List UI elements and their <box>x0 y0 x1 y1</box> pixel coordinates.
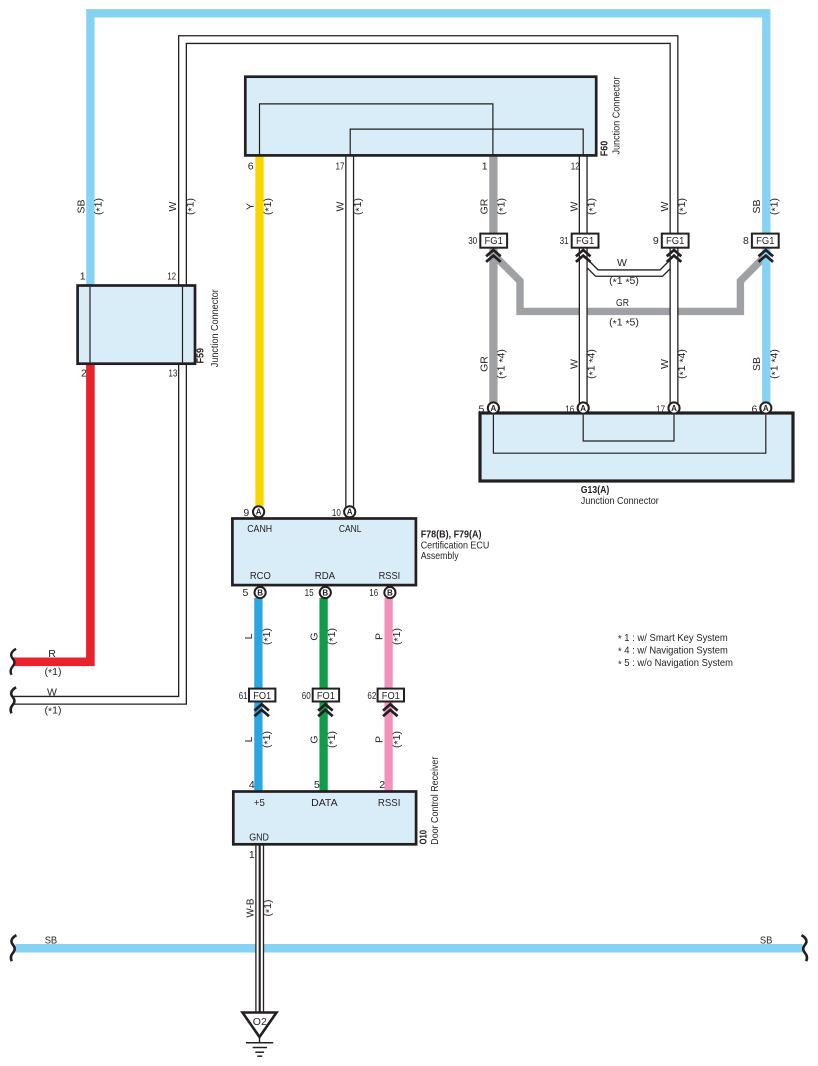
continuation brace left of R wire <box>11 649 16 675</box>
svg-text:31: 31 <box>560 235 569 247</box>
svg-text:(*1 *4): (*1 *4) <box>676 349 689 379</box>
svg-text:G: G <box>308 632 320 640</box>
F59 name label <box>196 289 221 367</box>
svg-text:5: 5 <box>314 779 320 791</box>
svg-text:FO1: FO1 <box>382 690 400 702</box>
continuation brace right of bottom SB rail <box>802 935 807 961</box>
svg-text:F60: F60 <box>600 140 611 156</box>
svg-text:* 5 : w/o Navigation System: * 5 : w/o Navigation System <box>618 657 733 670</box>
pin 10 A circle on ECU <box>344 506 355 517</box>
wire W : F60 pin 12 down to FG1 pin 31 <box>579 156 588 234</box>
svg-text:W: W <box>659 201 671 211</box>
wire SB : FG1 pin 8 down to G13(A) pin 6 <box>762 248 770 404</box>
connector FO1 pin 61 <box>249 689 275 717</box>
wire label R (*1) <box>45 648 62 679</box>
wire label W (*1) stub <box>45 687 62 718</box>
svg-text:Junction Connector: Junction Connector <box>209 289 221 367</box>
door control receiver O10 <box>233 792 416 845</box>
svg-text:(*1): (*1) <box>352 198 365 215</box>
svg-text:FO1: FO1 <box>253 690 271 702</box>
wire label SB (*1 *4) <box>751 349 782 379</box>
pin 5 A circle on G13 <box>488 402 499 413</box>
svg-text:1: 1 <box>249 849 255 861</box>
svg-text:13: 13 <box>168 368 177 380</box>
wire label W (*1 *4) to pin 16 <box>568 349 599 379</box>
junction connector F59 <box>78 286 195 364</box>
svg-text:GR: GR <box>478 356 490 372</box>
svg-text:(*1): (*1) <box>326 731 339 748</box>
svg-text:W: W <box>568 359 580 369</box>
svg-text:(*1): (*1) <box>262 198 275 215</box>
svg-text:(*1 *4): (*1 *4) <box>768 349 781 379</box>
wire W : FG1 pin 31 down to G13(A) pin 16 <box>579 248 588 404</box>
svg-text:5: 5 <box>479 404 485 416</box>
svg-text:Junction Connector: Junction Connector <box>610 76 622 154</box>
connector FG1 pin 8 <box>752 234 779 262</box>
svg-text:W: W <box>568 201 580 211</box>
svg-text:SB: SB <box>76 199 88 213</box>
svg-text:62: 62 <box>367 690 376 702</box>
wire label GR (*1 *5) <box>609 297 639 330</box>
svg-text:9: 9 <box>243 507 249 519</box>
ground hatch <box>246 1043 273 1056</box>
svg-text:(*1): (*1) <box>262 900 275 917</box>
wire label GR (*1 *4) <box>478 349 509 379</box>
svg-text:FG1: FG1 <box>756 235 774 247</box>
svg-text:GR: GR <box>616 297 629 309</box>
svg-text:B: B <box>322 588 328 597</box>
svg-text:2: 2 <box>81 368 87 380</box>
svg-text:4: 4 <box>249 779 255 791</box>
wire W (*1 *5) : FG1 pin 31 jog to FG1 pin 9 (outlined) <box>583 260 674 274</box>
wire W : F59 pin 12 up, across top, down to FG1 pin 9 (outlined white wire) <box>183 40 675 286</box>
pin 16 A circle on G13 <box>578 402 589 413</box>
wire label W (*1) F60 pin 17 <box>335 198 366 215</box>
connector FO1 pin 62 <box>378 689 404 717</box>
svg-text:12: 12 <box>571 160 580 172</box>
svg-text:SB: SB <box>760 935 773 947</box>
svg-text:A: A <box>763 404 769 413</box>
G13 name label <box>581 485 659 507</box>
svg-text:Junction Connector: Junction Connector <box>581 495 659 507</box>
svg-text:GR: GR <box>478 198 490 214</box>
connector FG1 pin 30 <box>480 234 507 262</box>
wire P : ECU pin 16 down through FO1 62 to Door Control Receiver pin 2 <box>384 598 392 792</box>
svg-text:SB: SB <box>45 935 58 947</box>
svg-text:RSSI: RSSI <box>379 570 401 582</box>
svg-text:FO1: FO1 <box>317 690 335 702</box>
G13 internal joint pin 5 to pin 6 <box>493 415 765 453</box>
svg-text:(*1): (*1) <box>496 198 509 215</box>
connector FG1 pin 31 <box>572 234 599 262</box>
O10 name label <box>419 756 441 844</box>
svg-text:8: 8 <box>743 235 749 247</box>
svg-text:16: 16 <box>565 404 574 416</box>
svg-text:(*1): (*1) <box>93 198 106 215</box>
svg-text:1: 1 <box>80 271 86 283</box>
wire W : F59 pin 13 down and left to continuation (outlined) <box>14 364 183 701</box>
svg-text:A: A <box>580 404 586 413</box>
svg-text:O2: O2 <box>253 1016 267 1028</box>
svg-text:(*1): (*1) <box>676 198 689 215</box>
svg-text:W: W <box>167 201 179 211</box>
wire label P (*1) lower <box>373 731 404 748</box>
ground stem <box>259 1037 261 1043</box>
svg-text:(*1): (*1) <box>391 628 404 645</box>
svg-text:L: L <box>243 633 255 639</box>
svg-text:A: A <box>256 508 262 517</box>
svg-text:* 4 : w/ Navigation System: * 4 : w/ Navigation System <box>618 644 728 657</box>
wire G : ECU pin 15 down through FO1 60 to Door Control Receiver pin 5 <box>319 598 327 792</box>
wire GR : F60 pin 1 down to FG1 pin 30 <box>489 156 497 234</box>
svg-text:W: W <box>47 687 57 699</box>
svg-text:FG1: FG1 <box>485 235 503 247</box>
wire label L (*1) lower <box>243 731 274 748</box>
svg-text:6: 6 <box>248 160 254 172</box>
svg-text:W: W <box>659 359 671 369</box>
svg-text:(*1): (*1) <box>45 704 62 717</box>
pin 9 A circle on ECU <box>253 506 264 517</box>
svg-text:DATA: DATA <box>311 797 338 809</box>
wire label L (*1) upper <box>243 628 274 645</box>
svg-text:16: 16 <box>369 587 378 599</box>
svg-text:(*1): (*1) <box>768 198 781 215</box>
wire label W (*1 *5) <box>609 257 639 288</box>
wire label W (*1) top left <box>167 198 198 215</box>
wire W-B : Door Control Receiver pin 1 down to ground O2 <box>255 844 264 1012</box>
wire label G (*1) upper <box>308 628 339 645</box>
svg-text:A: A <box>491 404 497 413</box>
connector FO1 pin 60 <box>313 689 339 717</box>
wire GR : FG1 pin 30 down to G13(A) pin 5 <box>489 248 497 404</box>
svg-text:* 1 : w/ Smart Key System: * 1 : w/ Smart Key System <box>618 632 728 645</box>
svg-text:10: 10 <box>332 507 341 519</box>
wire W : F60 pin 17 down to Certification ECU pin 10 <box>345 156 354 507</box>
svg-text:W-B: W-B <box>244 899 256 918</box>
continuation brace left of W wire <box>11 687 16 713</box>
svg-text:12: 12 <box>167 271 176 283</box>
wire R : F59 pin 2 down and left to continuation <box>14 364 91 662</box>
wire label SB (*1) right column <box>751 198 782 215</box>
svg-text:SB: SB <box>751 199 763 213</box>
svg-text:P: P <box>373 736 385 743</box>
connector FG1 pin 9 <box>662 234 689 262</box>
svg-text:5: 5 <box>243 587 249 599</box>
junction connector F60 <box>245 77 596 156</box>
ECU name label <box>421 529 490 562</box>
F60 name label <box>600 76 623 156</box>
svg-text:Assembly: Assembly <box>421 550 460 562</box>
svg-text:2: 2 <box>379 779 385 791</box>
svg-text:W: W <box>335 201 347 211</box>
svg-text:GND: GND <box>249 832 269 844</box>
svg-text:(*1): (*1) <box>326 628 339 645</box>
svg-text:A: A <box>671 404 677 413</box>
svg-text:(*1 *4): (*1 *4) <box>586 349 599 379</box>
wire label G (*1) lower <box>308 731 339 748</box>
svg-text:(*1 *5): (*1 *5) <box>609 317 639 330</box>
F60 internal joint pin 6 to pin 1 <box>260 104 493 155</box>
wire label GR (*1) F60 pin 1 <box>478 198 509 215</box>
svg-text:+5: +5 <box>254 797 265 809</box>
svg-text:Y: Y <box>245 203 257 210</box>
wire label P (*1) upper <box>373 628 404 645</box>
svg-text:(*1): (*1) <box>586 198 599 215</box>
svg-text:SB: SB <box>751 357 763 371</box>
svg-text:(*1): (*1) <box>391 731 404 748</box>
wire Y : F60 pin 6 down to Certification ECU pin 9 <box>255 156 263 507</box>
wire W : FG1 pin 9 down to G13(A) pin 17 <box>670 248 679 404</box>
svg-text:(*1): (*1) <box>261 731 274 748</box>
pin 6 A circle on G13 <box>760 402 771 413</box>
svg-text:17: 17 <box>336 160 345 172</box>
F59 internal joint pin 12 to pin 13 <box>182 287 184 363</box>
wire label W (*1) F60 pin 12 <box>568 198 599 215</box>
svg-text:CANH: CANH <box>247 523 272 535</box>
svg-text:B: B <box>257 588 263 597</box>
svg-text:P: P <box>373 633 385 640</box>
wire SB : bottom rail across page <box>15 944 802 953</box>
wire L : ECU pin 5 down through FO1 61 to Door Control Receiver pin 4 <box>254 598 262 792</box>
pin 15 B circle on ECU <box>320 587 331 598</box>
svg-text:RCO: RCO <box>250 570 271 582</box>
wire label W (*1 *4) to pin 17 <box>659 349 690 379</box>
svg-text:L: L <box>243 736 255 742</box>
svg-text:30: 30 <box>468 235 477 247</box>
svg-text:(*1): (*1) <box>45 666 62 679</box>
svg-text:FG1: FG1 <box>666 235 684 247</box>
svg-text:6: 6 <box>751 404 757 416</box>
svg-text:Door Control Receiver: Door Control Receiver <box>429 756 441 844</box>
wire SB : F59 pin 1 up, across top, down to FG1 pin 8 <box>90 13 766 285</box>
svg-text:(*1 *5): (*1 *5) <box>609 275 639 288</box>
svg-text:FG1: FG1 <box>576 235 594 247</box>
pin 5 B circle on ECU <box>255 587 266 598</box>
wire label W-B (*1) <box>244 899 275 918</box>
svg-text:61: 61 <box>239 690 248 702</box>
svg-text:17: 17 <box>656 404 665 416</box>
junction connector G13(A) <box>480 413 793 481</box>
wire GR (*1 *5) : FG1 pin 30 jog to FG1 pin 8 <box>493 255 765 312</box>
G13 internal joint pin 16 to pin 17 <box>583 415 674 441</box>
wire label SB (*1) top left <box>76 198 106 215</box>
wire label Y (*1) <box>245 198 275 215</box>
svg-text:15: 15 <box>305 587 314 599</box>
svg-text:(*1): (*1) <box>185 198 198 215</box>
ground O2 triangle <box>243 1013 277 1038</box>
svg-text:R: R <box>48 648 56 660</box>
svg-text:RDA: RDA <box>315 570 335 582</box>
svg-text:W: W <box>617 257 627 269</box>
svg-text:G: G <box>308 735 320 743</box>
svg-text:1: 1 <box>482 160 488 172</box>
svg-text:9: 9 <box>653 235 659 247</box>
svg-text:(*1): (*1) <box>261 628 274 645</box>
svg-text:A: A <box>347 508 353 517</box>
continuation brace left of bottom SB rail <box>11 935 16 961</box>
svg-text:B: B <box>387 588 393 597</box>
F59 internal joint pin 1 to pin 2 <box>89 287 91 363</box>
certification ECU assembly F78(B),F79(A) <box>232 519 416 586</box>
svg-text:CANL: CANL <box>339 523 362 535</box>
wire label W (*1) right column <box>659 198 690 215</box>
pin 17 A circle on G13 <box>668 402 679 413</box>
svg-text:(*1 *4): (*1 *4) <box>496 349 509 379</box>
svg-text:60: 60 <box>302 690 311 702</box>
pin 16 B circle on ECU <box>384 587 395 598</box>
F60 internal joint pin 17 to pin 12 <box>350 129 583 155</box>
svg-text:F59: F59 <box>196 348 207 364</box>
svg-text:RSSI: RSSI <box>378 797 401 809</box>
